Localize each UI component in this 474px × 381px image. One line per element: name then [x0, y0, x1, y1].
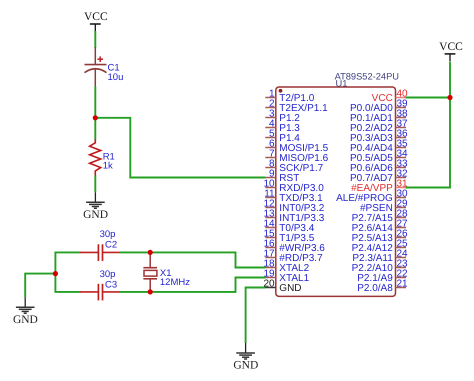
power symbol VCC (top left)	[84, 11, 108, 31]
U1 pin 7 (MISO/P1.6)	[265, 149, 328, 165]
U1 pin 35 (P0.4/AD4)	[350, 139, 408, 155]
U1 pin 19 (XTAL1)	[263, 269, 309, 285]
svg-text:30p: 30p	[100, 229, 116, 240]
ground GND (below R1)	[83, 192, 108, 221]
wire pin 20 GND to ground symbol	[246, 288, 266, 344]
svg-text:VCC: VCC	[84, 11, 108, 23]
svg-text:20: 20	[263, 279, 275, 290]
junction node VCC/pin40	[447, 95, 452, 100]
svg-text:10u: 10u	[108, 72, 124, 83]
label X1 12MHz	[160, 268, 190, 288]
wire to C2	[55, 251, 81, 253]
U1 pin 20 (GND)	[263, 279, 301, 295]
junction node X1 top	[148, 250, 153, 255]
U1 pin 37 (P0.2/AD2)	[350, 119, 408, 135]
wire pin 31 #EA/VPP	[406, 187, 451, 189]
wire junction down to pin 31	[449, 98, 451, 188]
junction node X1 bottom	[148, 289, 153, 294]
ground GND (bottom middle)	[233, 343, 258, 372]
U1 pin 5 (P1.4)	[265, 129, 300, 145]
wire left vertical C2/C3 bus	[54, 252, 56, 292]
junction node C1/R1/RST	[93, 115, 98, 120]
svg-text:GND: GND	[13, 314, 38, 326]
U1 pin 23 (P2.2/A10)	[352, 259, 408, 275]
svg-text:P2.0/A8: P2.0/A8	[357, 283, 393, 294]
wire junction to RST pin 9	[95, 118, 265, 178]
svg-text:30p: 30p	[100, 269, 116, 280]
U1 pin 40 (VCC)	[372, 89, 408, 105]
wire C1 to junction	[94, 87, 96, 118]
label R1 1k	[103, 152, 115, 172]
U1 pin 22 (P2.1/A9)	[357, 269, 408, 285]
U1 pin 34 (P0.5/AD5)	[350, 149, 408, 165]
svg-text:12MHz: 12MHz	[160, 277, 190, 288]
wire R1 to GND	[94, 176, 96, 193]
U1 pin 38 (P0.1/AD1)	[350, 109, 408, 125]
U1 pin 24 (P2.3/A11)	[352, 249, 408, 265]
U1 pin 32 (P0.7/AD7)	[350, 169, 408, 185]
U1 pin 13 (INT1/P3.3)	[263, 209, 324, 225]
ground GND (bottom left)	[13, 297, 38, 326]
label C2 30p	[100, 229, 118, 250]
U1 pin 16 (#WR/P3.6)	[263, 239, 325, 255]
IC U1 AT89S52-24PU body	[276, 87, 396, 296]
svg-text:21: 21	[397, 279, 409, 290]
U1 pin 33 (P0.6/AD6)	[350, 159, 408, 175]
U1 pin 8 (SCK/P1.7)	[265, 159, 323, 175]
svg-text:GND: GND	[233, 360, 258, 372]
label C3 30p	[100, 269, 118, 291]
crystal X1	[143, 252, 157, 292]
capacitor C2	[80, 244, 119, 261]
wire junction to GND (bottom left)	[25, 274, 55, 298]
U1 pin 3 (P1.2)	[265, 109, 300, 125]
capacitor C3	[80, 284, 119, 301]
wire junction to R1	[94, 118, 96, 140]
label C1 10u	[108, 63, 124, 84]
U1 pin 21 (P2.0/A8)	[357, 279, 408, 295]
U1 pin 2 (T2EX/P1.1)	[265, 99, 328, 115]
wire pin 40 VCC	[406, 97, 451, 99]
power symbol VCC (top right)	[439, 41, 463, 61]
U1 pin 12 (INT0/P3.2)	[263, 199, 324, 215]
U1 pin 26 (P2.5/A13)	[352, 229, 408, 245]
U1 pin 11 (TXD/P3.1)	[264, 189, 323, 205]
U1 pin 29 (#PSEN)	[360, 199, 408, 215]
capacitor C1	[85, 47, 107, 87]
U1 pin 28 (P2.7/A15)	[352, 209, 408, 225]
svg-text:C3: C3	[105, 279, 117, 290]
U1 pin 4 (P1.3)	[265, 119, 300, 135]
wire C3 to X1 bottom junction and pin 19 XTAL1	[119, 278, 265, 292]
U1 pin 15 (T1/P3.5)	[263, 229, 314, 245]
svg-text:VCC: VCC	[439, 41, 463, 53]
label AT89S52-24PU	[335, 71, 399, 81]
wire VCC to C1	[94, 31, 96, 48]
U1 pin 36 (P0.3/AD3)	[350, 129, 408, 145]
resistor R1	[90, 139, 101, 176]
U1 pin 17 (#RD/P3.7)	[263, 249, 323, 265]
wire C2 to X1 top junction and pin 18 XTAL2	[119, 252, 265, 267]
junction node GND branch	[53, 271, 58, 276]
U1 pin 31 (#EA/VPP)	[351, 179, 408, 195]
svg-text:GND: GND	[279, 283, 301, 294]
wire VCC down to junction	[449, 62, 451, 99]
U1 pin 39 (P0.0/AD0)	[350, 99, 408, 115]
U1 pin 30 (ALE/#PROG)	[336, 189, 408, 205]
U1 pin 9 (RST)	[265, 169, 299, 185]
U1 pin 25 (P2.4/A12)	[352, 239, 408, 255]
svg-text:U1: U1	[336, 79, 348, 89]
wire to C3	[55, 291, 81, 293]
svg-text:1k: 1k	[103, 161, 113, 172]
U1 pin 6 (MOSI/P1.5)	[265, 139, 328, 155]
svg-text:C2: C2	[105, 240, 117, 251]
U1 pin 27 (P2.6/A14)	[352, 219, 408, 235]
label U1	[336, 79, 348, 89]
svg-text:GND: GND	[83, 209, 108, 221]
U1 pin 10 (RXD/P3.0)	[263, 179, 324, 195]
U1 pin 1 (T2/P1.0)	[265, 89, 314, 105]
U1 pin 18 (XTAL2)	[263, 259, 309, 275]
U1 pin 14 (T0/P3.4)	[263, 219, 314, 235]
